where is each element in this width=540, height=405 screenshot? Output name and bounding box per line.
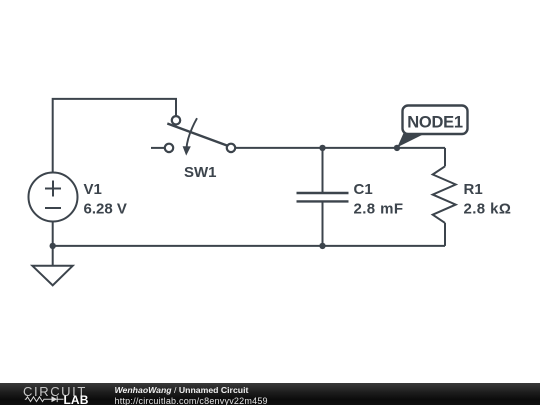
svg-text:NODE1: NODE1	[407, 114, 463, 132]
svg-text:V1: V1	[84, 181, 102, 198]
svg-text:2.8 mF: 2.8 mF	[354, 201, 404, 218]
svg-text:LAB: LAB	[64, 393, 89, 405]
svg-text:6.28 V: 6.28 V	[84, 201, 127, 218]
svg-text:R1: R1	[464, 181, 483, 198]
svg-text:C1: C1	[354, 181, 373, 198]
svg-text:SW1: SW1	[184, 164, 217, 181]
svg-text:2.8 kΩ: 2.8 kΩ	[464, 201, 512, 218]
